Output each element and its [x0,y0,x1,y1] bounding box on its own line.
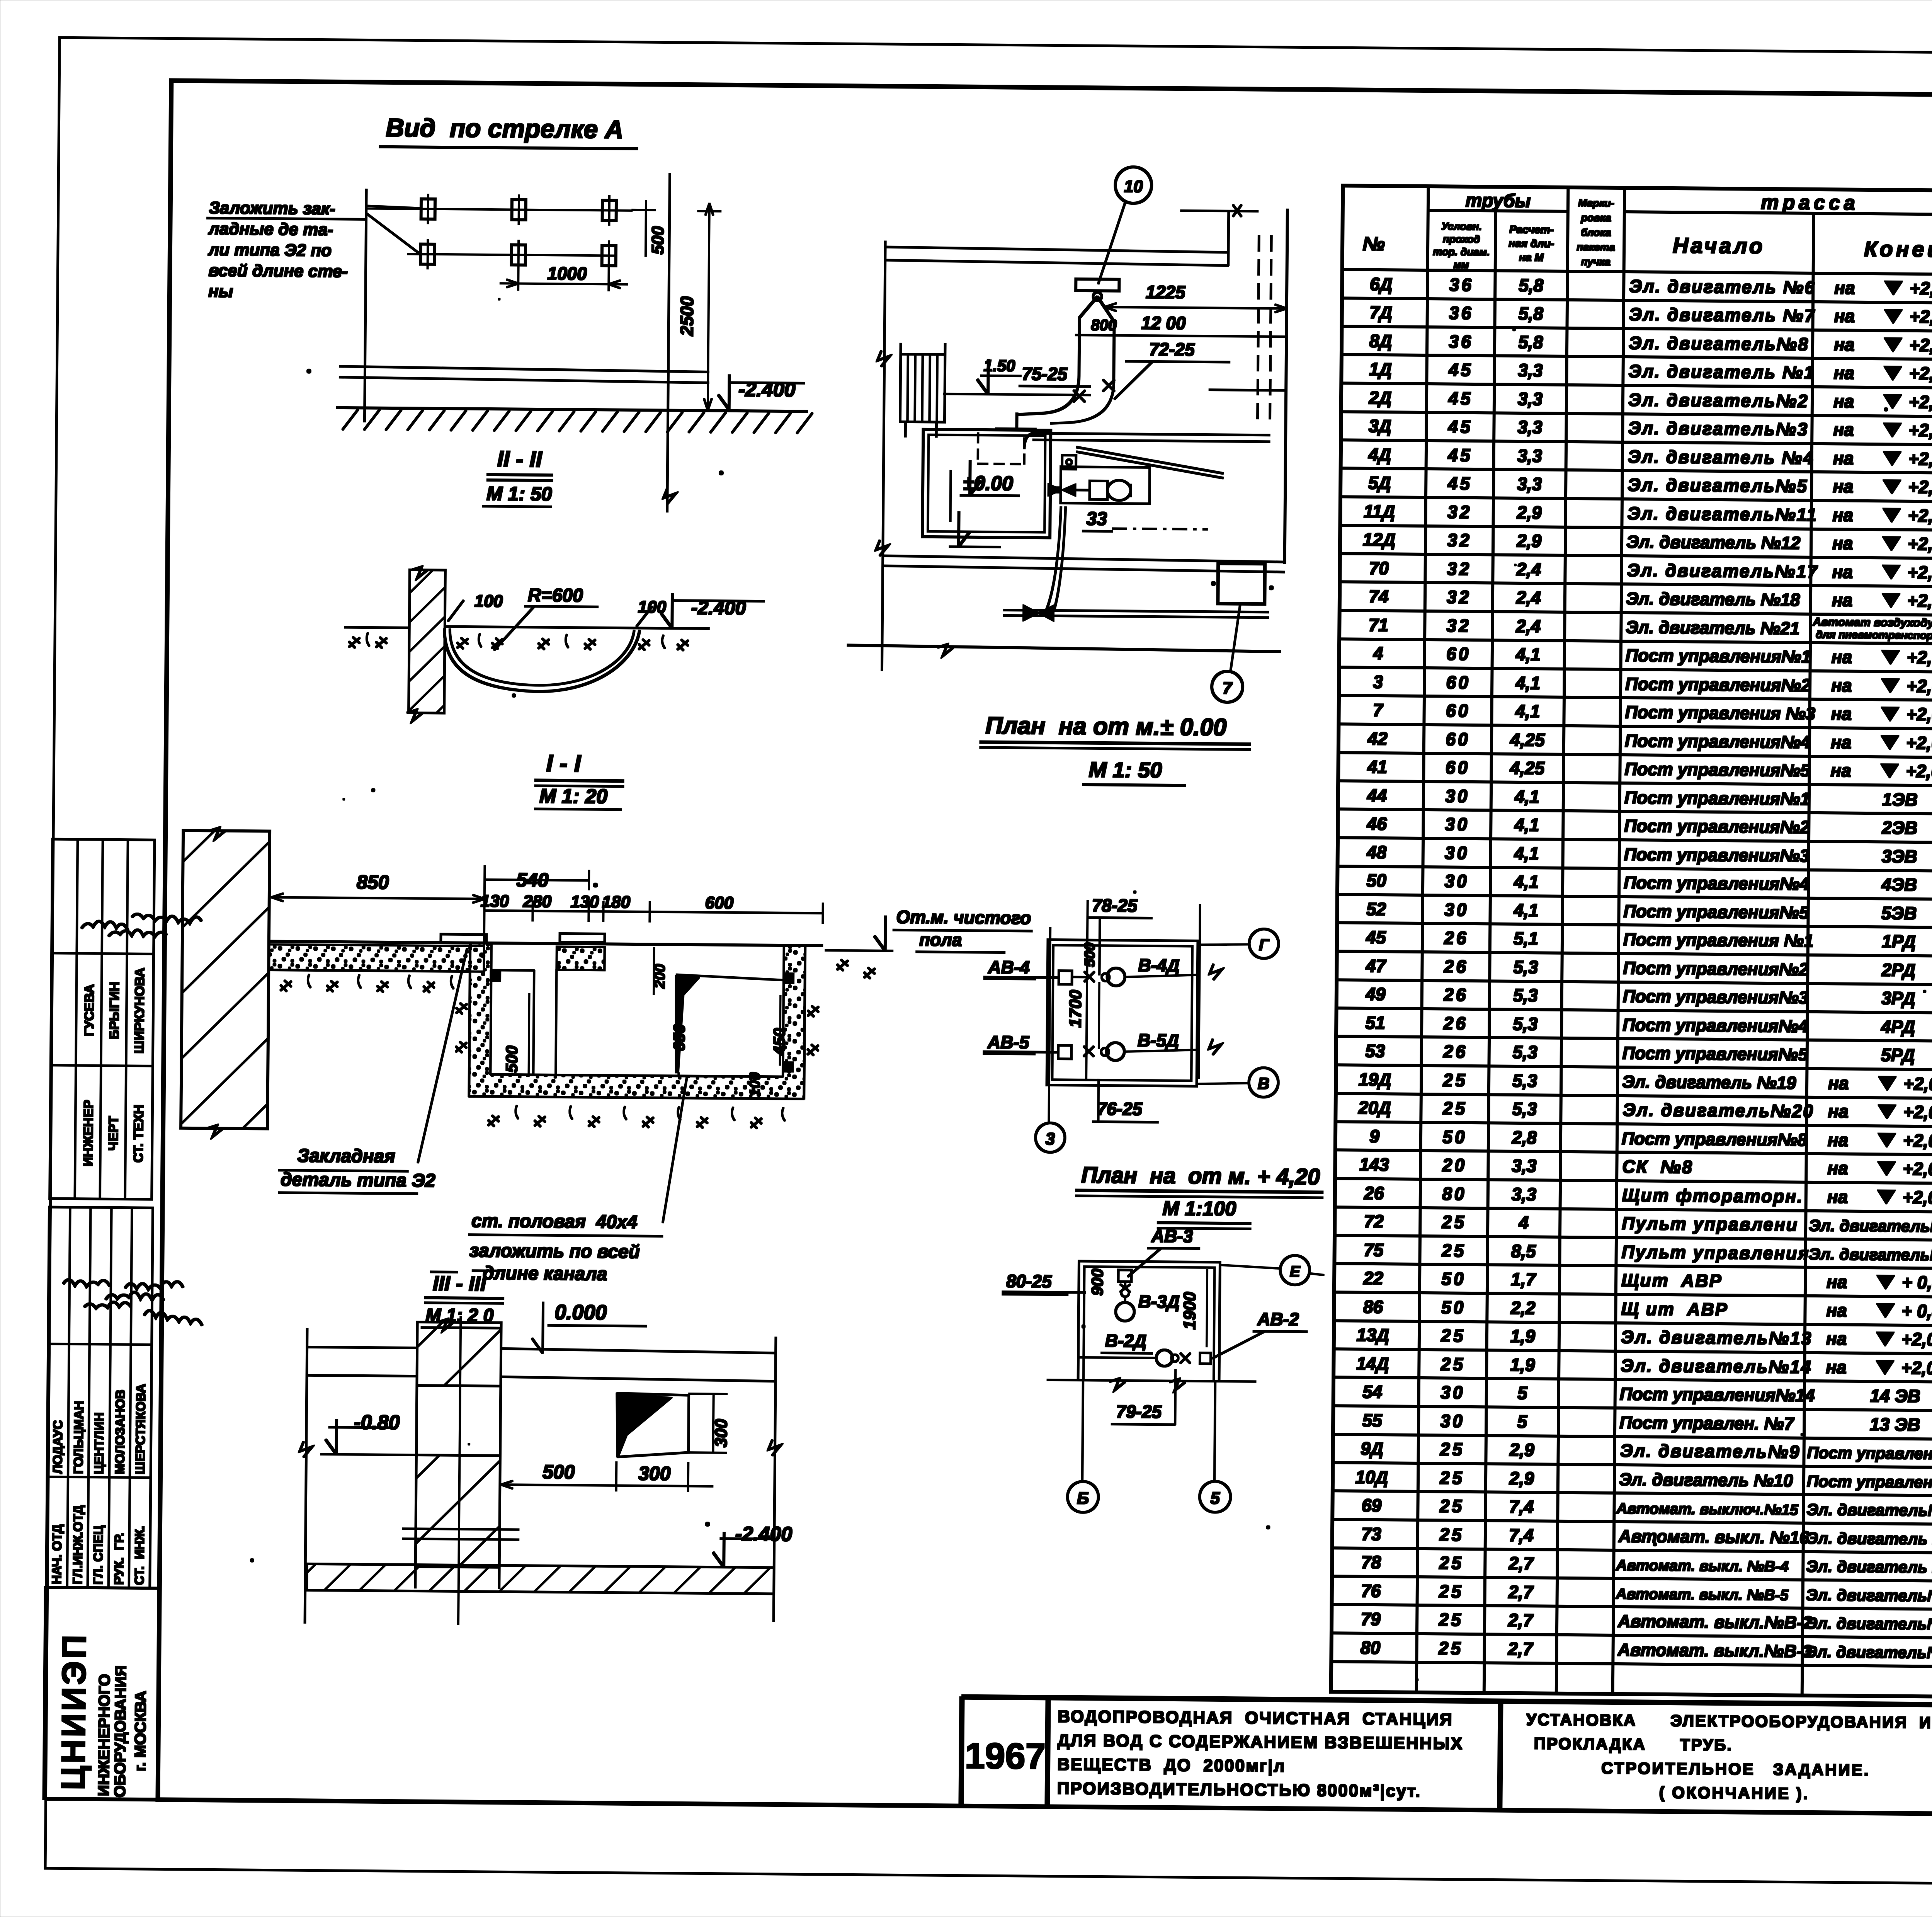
svg-text:Г: Г [1259,936,1270,954]
svg-text:7: 7 [1223,679,1233,698]
plan 0.00 top wall [884,247,1228,266]
svg-text:ОБОРУДОВАНИЯ: ОБОРУДОВАНИЯ [111,1665,129,1798]
III wall column hatched [415,1319,501,1589]
svg-text:ГЛ.ИНЖ.ОТД: ГЛ.ИНЖ.ОТД [70,1505,85,1585]
svg-text:Автомат. выкл. №В-5: Автомат. выкл. №В-5 [1616,1586,1789,1604]
label Закладная деталь типа Э2 [279,947,467,1194]
svg-text:R=600: R=600 [528,585,583,606]
table row 42 [1367,726,1932,764]
svg-text:1900: 1900 [1180,1292,1199,1330]
pit corner embeds [490,971,794,1072]
svg-text:30: 30 [1444,871,1469,891]
svg-text:Пост управления№5: Пост управления№5 [1623,901,1809,923]
svg-text:Пост управления№3: Пост управления№3 [1624,844,1810,866]
svg-text:78: 78 [1361,1552,1381,1572]
table row 52 [1366,897,1932,935]
table outer grid [1331,186,1932,1702]
svg-text:на: на [1827,1272,1847,1292]
svg-text:Е: Е [1290,1263,1301,1280]
svg-text:-0.80: -0.80 [354,1411,400,1434]
ground marks trench [349,633,688,650]
svg-text:2,9: 2,9 [1509,1468,1534,1489]
svg-text:7Д: 7Д [1369,302,1392,322]
room plan upper walls [1047,940,1198,1086]
svg-text:2,4: 2,4 [1515,616,1541,637]
circle 3 axis [1036,1123,1065,1153]
svg-text:ДЛЯ ВОД С СОДЕРЖАНИЕМ ВЗВЕШЕНН: ДЛЯ ВОД С СОДЕРЖАНИЕМ ВЗВЕШЕННЫХ [1058,1731,1464,1753]
svg-text:Эл. двигатель№24: Эл. двигатель№24 [1808,1245,1932,1264]
svg-text:План на от м.± 0.00: План на от м.± 0.00 [985,712,1226,741]
dim 1700 rotated [1066,982,1099,1049]
svg-text:Эл. двигатель№17: Эл. двигатель№17 [1627,560,1818,582]
svg-text:5: 5 [1517,1411,1527,1432]
label III-III [421,1270,504,1328]
svg-text:5,1: 5,1 [1514,928,1538,949]
table row 4Д [1368,442,1932,480]
svg-text:4: 4 [1373,643,1383,663]
svg-text:на: на [1832,647,1852,667]
label 75-25 [1019,364,1090,386]
svg-text:ная дли-: ная дли- [1509,237,1554,250]
svg-text:МОЛОЗАНОВ: МОЛОЗАНОВ [112,1389,128,1474]
circle 7 [1212,671,1243,703]
svg-text:74: 74 [1369,586,1389,606]
svg-text:36: 36 [1449,303,1474,323]
svg-text:4Д: 4Д [1368,444,1391,465]
svg-text:1,9: 1,9 [1510,1355,1535,1375]
svg-text:25: 25 [1440,1439,1465,1459]
title year 1967 [964,1735,1046,1777]
table row 143 [1359,1152,1932,1190]
svg-text:на: на [1828,1073,1849,1093]
table row 74 [1369,584,1932,622]
svg-text:Пост управления№2: Пост управления№2 [1624,816,1810,837]
plan ground line [847,644,1281,659]
table row 9 [1369,1124,1932,1162]
svg-text:7: 7 [1373,700,1384,720]
svg-text:Пост управления№5: Пост управления№5 [1624,759,1810,780]
svg-text:на: на [1830,760,1851,780]
svg-text:ПРОИЗВОДИТЕЛЬНОСТЬЮ 8000м³|сут: ПРОИЗВОДИТЕЛЬНОСТЬЮ 8000м³|сут. [1057,1779,1422,1801]
svg-text:+ 0,8: + 0,8 [1902,1272,1932,1293]
plan 0.00 right wall [1178,204,1287,564]
svg-text:на: на [1831,703,1852,724]
svg-text:Пост управления№4: Пост управления№4 [1624,873,1809,894]
svg-text:Пост управления№2: Пост управления№2 [1625,674,1811,695]
svg-text:Эл. двигатель №1: Эл. двигатель №1 [1628,361,1815,383]
III floor slab hatched [307,1564,774,1594]
label Отм. чистого пола [825,906,1032,953]
svg-text:Конец: Конец [1864,237,1932,262]
table row 44 [1367,783,1932,821]
pump unit plan [1048,455,1150,504]
room plan lower walls [1047,1261,1257,1391]
svg-text:ст. половая 40х4: ст. половая 40х4 [471,1211,638,1233]
svg-text:25: 25 [1439,1496,1464,1516]
svg-text:В-5Д: В-5Д [1138,1030,1179,1050]
svg-text:5,3: 5,3 [1513,1014,1538,1034]
svg-text:деталь типа Э2: деталь типа Э2 [281,1170,435,1191]
svg-text:26: 26 [1444,956,1469,977]
dims 500 300 III [501,1461,713,1491]
floor double line [339,366,709,383]
svg-text:36: 36 [1449,331,1473,351]
title План +4.20 [1075,1163,1323,1229]
dim 100 left [448,591,503,621]
svg-text:ладные де та-: ладные де та- [208,219,333,239]
svg-text:75: 75 [1364,1240,1384,1260]
svg-text:3,3: 3,3 [1518,360,1543,381]
svg-text:+2,00: +2,00 [1901,1358,1932,1378]
svg-text:ли типа Э2 по: ли типа Э2 по [208,240,332,260]
svg-text:на: на [1832,562,1853,582]
level mark -2.400 view A [718,375,805,410]
svg-text:I - I: I - I [546,750,582,777]
table row 12Д [1363,527,1932,565]
svg-text:30: 30 [1440,1382,1465,1402]
svg-text:3,3: 3,3 [1517,446,1543,466]
svg-text:26: 26 [1443,1013,1468,1033]
svg-text:Пост управления№2: Пост управления№2 [1623,958,1808,979]
level -0.80 [321,1411,417,1455]
svg-text:80: 80 [1361,1638,1381,1658]
svg-text:42: 42 [1367,729,1388,749]
svg-text:на: на [1831,675,1852,695]
svg-text:5: 5 [1210,1489,1220,1508]
embedded plates on floor [441,933,605,944]
title sheet name [1526,1710,1932,1803]
dim 1000 [500,263,628,291]
hoist circle 10 [1098,167,1151,284]
svg-text:51: 51 [1366,1013,1386,1033]
svg-text:Пост управления№6: Пост управления№6 [1807,1472,1932,1492]
svg-text:75-25: 75-25 [1022,364,1068,384]
svg-text:1967: 1967 [964,1735,1046,1777]
svg-text:блока: блока [1581,226,1611,238]
table row 26 [1364,1181,1932,1219]
table row 73 [1361,1522,1932,1559]
svg-text:13Д: 13Д [1357,1325,1389,1345]
III black wedge detail [616,1393,689,1457]
svg-text:25: 25 [1442,1070,1468,1090]
svg-text:5Д: 5Д [1368,473,1391,493]
svg-text:ЦНИИЭП: ЦНИИЭП [55,1633,93,1790]
svg-text:на: на [1833,391,1854,411]
level mark -2.400 trench [661,593,764,629]
svg-text:Автомат воздуходувки: Автомат воздуходувки [1812,616,1932,630]
level -2.400 III [713,1523,792,1568]
box and sensors lower room [1116,1270,1180,1321]
svg-text:500: 500 [1082,943,1098,967]
room axes verticals upper [1049,900,1200,1124]
svg-text:-2.400: -2.400 [691,597,746,619]
svg-text:+2,00: +2,00 [1907,591,1932,611]
title План на отм 0.00 [980,712,1250,786]
svg-text:Эл. двигатель№В-2: Эл. двигатель№В-2 [1806,1614,1932,1633]
table row 9Д [1361,1436,1932,1474]
svg-text:25: 25 [1439,1553,1464,1573]
svg-text:СТ. ТЕХН: СТ. ТЕХН [131,1105,146,1163]
table row 50 [1366,868,1932,906]
svg-text:Щ ит АВР: Щ ит АВР [1621,1299,1728,1319]
svg-text:на: на [1826,1300,1847,1320]
svg-text:Эл. двигатель №В-4: Эл. двигатель №В-4 [1806,1557,1932,1577]
svg-text:48: 48 [1366,842,1387,862]
svg-text:Б: Б [1077,1489,1089,1508]
sensor row АВ-5 [983,1029,1222,1061]
pit inner details [490,946,784,1077]
svg-text:Автомат. выкл.№В-3: Автомат. выкл.№В-3 [1617,1640,1812,1661]
svg-text:600: 600 [705,893,734,913]
circle Г [1198,928,1279,958]
svg-text:5,3: 5,3 [1512,1099,1537,1119]
svg-text:Эл. двигатель№2: Эл. двигатель№2 [1628,390,1809,411]
svg-text:52: 52 [1366,899,1386,919]
svg-text:Эл. двигатель№9: Эл. двигатель№9 [1620,1440,1800,1462]
table header texts [1362,188,1932,281]
svg-text:7,4: 7,4 [1509,1525,1534,1546]
svg-text:Эл. двигатель №10: Эл. двигатель №10 [1619,1469,1793,1491]
svg-text:60: 60 [1446,672,1471,692]
sensor row АВ-4 [984,954,1222,987]
svg-text:53: 53 [1365,1041,1385,1061]
svg-text:2,7: 2,7 [1508,1582,1534,1602]
svg-text:5РД: 5РД [1881,1045,1915,1065]
svg-text:3,3: 3,3 [1518,389,1543,409]
svg-text:4: 4 [1518,1212,1529,1233]
svg-text:Эл. двигатель№23: Эл. двигатель№23 [1809,1216,1932,1236]
svg-text:Автомат. выкл.№В-2: Автомат. выкл.№В-2 [1617,1611,1812,1633]
svg-text:500: 500 [502,1045,521,1073]
svg-text:3: 3 [1046,1129,1055,1148]
trench curve R=600 [444,629,639,692]
svg-text:100: 100 [474,592,503,611]
svg-text:ЛОДАУС: ЛОДАУС [50,1420,65,1474]
svg-text:Щит АВР: Щит АВР [1621,1270,1723,1291]
circle 5 [1199,1481,1231,1513]
svg-text:25: 25 [1441,1240,1466,1261]
svg-text:АВ-5: АВ-5 [987,1032,1030,1052]
svg-text:+2,00: +2,00 [1908,506,1932,526]
svg-text:+2,00: +2,00 [1903,1159,1932,1179]
svg-text:8,5: 8,5 [1511,1241,1537,1262]
svg-text:СК №8: СК №8 [1622,1156,1693,1177]
svg-text:2500: 2500 [677,296,697,336]
svg-text:III - III: III - III [433,1272,486,1296]
svg-text:76: 76 [1361,1581,1381,1601]
svg-text:100: 100 [747,1072,763,1097]
table row 48 [1366,840,1932,878]
svg-text:72-25: 72-25 [1149,339,1195,359]
svg-text:4,25: 4,25 [1510,758,1545,778]
svg-text:25: 25 [1440,1354,1466,1374]
svg-text:80: 80 [1442,1183,1467,1204]
svg-text:45: 45 [1447,473,1473,494]
svg-text:пола: пола [919,930,962,950]
svg-text:79-25: 79-25 [1116,1401,1162,1422]
svg-text:Эл. двигатель №4: Эл. двигатель №4 [1628,446,1815,468]
svg-text:Пост управлен. №7: Пост управлен. №7 [1619,1413,1794,1434]
svg-text:26: 26 [1364,1183,1384,1203]
svg-text:ВЕЩЕСТВ ДО 2000мг|л: ВЕЩЕСТВ ДО 2000мг|л [1057,1755,1286,1776]
svg-text:+2,00: +2,00 [1910,278,1932,299]
svg-text:Марки-: Марки- [1578,197,1614,209]
svg-text:+2,00: +2,00 [1908,534,1932,554]
svg-text:5,3: 5,3 [1513,957,1538,977]
svg-text:500: 500 [648,226,668,254]
svg-text:2,9: 2,9 [1517,502,1542,523]
svg-text:55: 55 [1362,1410,1383,1430]
table row 78 [1361,1550,1932,1588]
svg-text:4,1: 4,1 [1514,843,1539,864]
svg-text:4ЭВ: 4ЭВ [1881,874,1917,895]
svg-text:НАЧ. ОТД: НАЧ. ОТД [49,1524,64,1584]
bottom pipe with valve [1003,506,1269,623]
svg-text:на: на [1834,334,1855,354]
table row 45 [1366,925,1932,963]
svg-text:12Д: 12Д [1363,529,1396,550]
margin signatures upper [82,914,201,937]
cable pit walls stippled [469,945,805,1099]
svg-text:5,8: 5,8 [1519,303,1544,324]
svg-text:В: В [1258,1074,1270,1093]
svg-text:тор. диам.: тор. диам. [1433,246,1490,258]
dim 300 vertical III [689,1394,731,1453]
table row 7Д [1369,300,1932,338]
svg-text:86: 86 [1363,1297,1383,1317]
svg-text:79: 79 [1361,1609,1381,1629]
svg-text:50: 50 [1366,870,1386,890]
svg-text:Пульт управления: Пульт управления [1621,1242,1810,1263]
svg-text:73: 73 [1361,1524,1381,1544]
svg-text:32: 32 [1447,587,1471,607]
svg-text:Эл. двигатель№14: Эл. двигатель№14 [1621,1355,1812,1377]
svg-text:2ЭВ: 2ЭВ [1881,817,1917,838]
svg-text:Пост управления№1: Пост управления№1 [1624,788,1810,809]
dim 1900 rotated [1180,1269,1207,1347]
svg-text:Пост управления№3: Пост управления№3 [1623,986,1808,1008]
svg-text:ИНЖЕНЕРНОГО: ИНЖЕНЕРНОГО [95,1674,113,1796]
svg-text:30: 30 [1445,843,1469,863]
svg-text:45: 45 [1447,445,1473,465]
svg-text:Эл. двигатель №16: Эл. двигатель №16 [1806,1529,1932,1548]
svg-text:на: на [1833,448,1854,468]
svg-text:проход: проход [1443,233,1480,245]
svg-text:32: 32 [1447,530,1472,550]
svg-text:850: 850 [357,871,389,893]
scanner specks [250,222,1932,1689]
svg-text:1,9: 1,9 [1510,1326,1536,1347]
table row 7 [1373,698,1932,735]
svg-text:180: 180 [602,892,631,912]
table row 71 [1368,612,1932,650]
table row 19Д [1359,1067,1932,1105]
svg-text:26: 26 [1444,928,1469,948]
svg-text:6Д: 6Д [1370,274,1393,294]
svg-text:30: 30 [1445,786,1470,806]
svg-text:10Д: 10Д [1355,1467,1388,1488]
table row 49 [1365,982,1932,1020]
svg-text:70: 70 [1369,558,1389,578]
svg-text:Пост управления №3: Пост управления №3 [1625,702,1815,724]
svg-text:78-25: 78-25 [1092,895,1138,916]
diagonal pipe [1076,447,1223,478]
svg-text:800: 800 [1091,317,1117,334]
label 79-25 [1111,1369,1175,1425]
table row 20Д [1358,1095,1932,1133]
svg-text:2,9: 2,9 [1516,531,1542,551]
svg-text:4,1: 4,1 [1515,644,1541,665]
label II-II [483,446,553,507]
svg-text:на: на [1833,476,1854,496]
svg-text:1ЭВ: 1ЭВ [1882,789,1918,810]
dim 2500 vertical [676,203,721,410]
circle Е [1220,1255,1324,1285]
svg-text:49: 49 [1365,984,1386,1004]
svg-text:3: 3 [1373,672,1383,692]
svg-text:Пост управления №1: Пост управления №1 [1623,930,1814,951]
table row 76 [1361,1578,1932,1616]
svg-text:+2,00: +2,00 [1910,306,1932,327]
svg-text:50: 50 [1442,1127,1467,1147]
svg-text:Пост управления№14: Пост управления№14 [1620,1384,1815,1405]
row В-2Д [1079,1330,1211,1367]
svg-text:45: 45 [1448,416,1473,437]
svg-text:АВ-4: АВ-4 [988,957,1030,977]
svg-text:2Д: 2Д [1368,388,1391,408]
svg-text:на: на [1832,533,1853,553]
svg-text:4,1: 4,1 [1514,872,1539,892]
svg-text:Эл. двигатель№8: Эл. двигатель№8 [1629,333,1809,354]
table row 5Д [1368,470,1932,508]
svg-text:60: 60 [1446,757,1470,777]
svg-text:3,3: 3,3 [1517,417,1543,438]
label R=600 [494,585,598,651]
svg-text:50: 50 [1441,1268,1466,1289]
svg-text:4,1: 4,1 [1513,900,1538,921]
svg-text:20: 20 [1442,1155,1467,1175]
svg-text:Вид по стрелке А: Вид по стрелке А [386,113,623,144]
dim 100 right [636,598,667,627]
pit dims rotated [502,946,789,1097]
svg-text:ВОДОПРОВОДНАЯ ОЧИСТНАЯ СТАНЦ: ВОДОПРОВОДНАЯ ОЧИСТНАЯ СТАНЦИЯ [1058,1707,1453,1729]
svg-text:+2,00: +2,00 [1903,1187,1932,1208]
svg-text:45: 45 [1448,388,1473,409]
svg-text:+2,00: +2,00 [1909,335,1932,356]
svg-text:Заложить зак-: Заложить зак- [209,198,335,218]
svg-text:на: на [1827,1158,1848,1178]
svg-text:+ 0,8: + 0,8 [1901,1301,1932,1321]
svg-text:1,7: 1,7 [1511,1269,1537,1290]
svg-text:ГЛ. СПЕЦ: ГЛ. СПЕЦ [91,1525,105,1585]
svg-text:ИНЖЕНЕР: ИНЖЕНЕР [81,1100,96,1167]
svg-text:5,3: 5,3 [1513,1042,1538,1062]
table row 8Д [1369,329,1932,366]
svg-text:Эл. двигатель №19: Эл. двигатель №19 [1622,1072,1796,1093]
margin signatures lower [63,1280,202,1325]
svg-text:450: 450 [770,1028,789,1056]
svg-text:Пост управления№4: Пост управления№4 [1625,731,1810,752]
svg-text:1225: 1225 [1146,282,1186,302]
label ст. половая 40х4 [468,1074,687,1285]
svg-text:7,4: 7,4 [1509,1496,1534,1517]
svg-text:ШИРКУНОВА: ШИРКУНОВА [132,968,148,1054]
svg-text:Пост управления№1: Пост управления№1 [1626,645,1811,667]
svg-text:+2,00: +2,00 [1907,562,1932,583]
svg-text:ЧЕРТ: ЧЕРТ [106,1116,121,1151]
svg-text:Автомат. выкл. №16: Автомат. выкл. №16 [1618,1526,1810,1548]
svg-text:пучка: пучка [1581,256,1611,268]
